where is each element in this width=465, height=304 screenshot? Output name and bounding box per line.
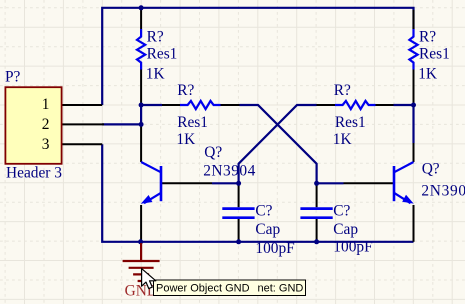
transistor Q1 emitter pin <box>140 205 142 242</box>
capacitor C2 plates <box>300 209 332 218</box>
svg-text:2N3904: 2N3904 <box>203 162 256 179</box>
header P? pin 3 stub <box>62 143 102 145</box>
junction node B <box>411 103 416 108</box>
svg-text:Res1: Res1 <box>419 45 450 62</box>
wire: Q2 base wire blue part <box>317 182 344 184</box>
resistor R4 body <box>409 29 417 70</box>
svg-text:R?: R? <box>334 82 351 99</box>
svg-text:1K: 1K <box>418 65 437 82</box>
transistor Q1 base pin <box>161 182 212 184</box>
svg-text:100pF: 100pF <box>333 239 372 256</box>
svg-text:Cap: Cap <box>333 221 358 238</box>
svg-text:Res1: Res1 <box>177 114 208 131</box>
resistor R3 body <box>335 101 375 109</box>
mouse cursor <box>142 269 156 289</box>
svg-text:1K: 1K <box>333 131 352 148</box>
svg-text:Res1: Res1 <box>147 45 178 62</box>
wire: R3 left cross diagonal down to Q1 base node <box>239 105 317 183</box>
svg-text:3: 3 <box>42 136 50 153</box>
junction node A at R2 <box>139 103 144 108</box>
svg-text:Res1: Res1 <box>335 114 366 131</box>
svg-text:P?: P? <box>5 68 21 85</box>
wire: node A vertical (R1 bottom to pin2) <box>140 105 142 124</box>
wire: top VCC rail <box>102 8 413 105</box>
junction Q1 base node <box>236 181 241 186</box>
wire: R3 right to node B <box>394 104 414 106</box>
capacitor C2 pins <box>316 183 318 242</box>
wire: Q1 base wire blue part <box>212 182 239 184</box>
transistor Q1 symbol <box>141 162 161 204</box>
resistor R4 pins (black) <box>413 10 415 103</box>
junction C1 bottom <box>236 239 241 244</box>
svg-text:R?: R? <box>177 82 194 99</box>
svg-text:C?: C? <box>255 203 272 220</box>
ground symbol <box>123 243 160 281</box>
junction Q2 base node <box>314 181 319 186</box>
transistor Q2 symbol <box>394 162 414 204</box>
wire: bottom rail with pin3 drop <box>102 144 413 242</box>
svg-text:1K: 1K <box>176 131 195 148</box>
svg-text:R?: R? <box>147 28 164 45</box>
svg-text:R?: R? <box>419 28 436 45</box>
wire: node A to R2 left <box>141 104 162 106</box>
junction node A top <box>139 5 144 10</box>
resistor R2 body <box>180 101 220 109</box>
wire: node B vertical below junction <box>412 105 414 143</box>
junction C2 bottom <box>314 239 319 244</box>
svg-text:C?: C? <box>333 203 350 220</box>
svg-text:Power Object GND: Power Object GND <box>156 283 250 295</box>
svg-text:2: 2 <box>42 116 50 133</box>
resistor R1 body <box>137 29 145 70</box>
tooltip Power Object GND <box>154 280 306 296</box>
header P? pin 1 stub <box>62 104 102 106</box>
svg-text:1K: 1K <box>146 65 165 82</box>
wire: pin2 to node A <box>102 123 141 125</box>
wire: R2 right to X-diagonal down to Q2 base node <box>240 105 317 183</box>
svg-text:100pF: 100pF <box>255 240 294 257</box>
svg-text:net: GND: net: GND <box>258 283 304 295</box>
header P? body <box>5 87 61 164</box>
svg-text:Header 3: Header 3 <box>6 165 62 182</box>
transistor Q2 emitter pin <box>413 205 415 242</box>
junction gnd rail left <box>138 239 143 244</box>
svg-text:Q?: Q? <box>422 160 440 177</box>
capacitor C1 plates <box>222 209 254 218</box>
resistor R3 pins (black) <box>317 104 394 106</box>
transistor Q2 base pin <box>344 182 395 184</box>
header P? pin 2 stub <box>62 123 104 125</box>
resistor R1 pins (black) <box>140 10 142 105</box>
resistor R2 pins (black) <box>162 104 240 106</box>
svg-text:1: 1 <box>42 96 50 113</box>
capacitor C1 pins <box>238 183 240 242</box>
svg-text:Cap: Cap <box>255 221 280 238</box>
transistor Q2 collector pin <box>413 143 415 162</box>
svg-text:2N3904: 2N3904 <box>421 183 465 200</box>
transistor Q1 collector pin <box>140 126 142 162</box>
svg-text:Q?: Q? <box>204 144 222 161</box>
junction node A at pin2 <box>139 122 144 127</box>
